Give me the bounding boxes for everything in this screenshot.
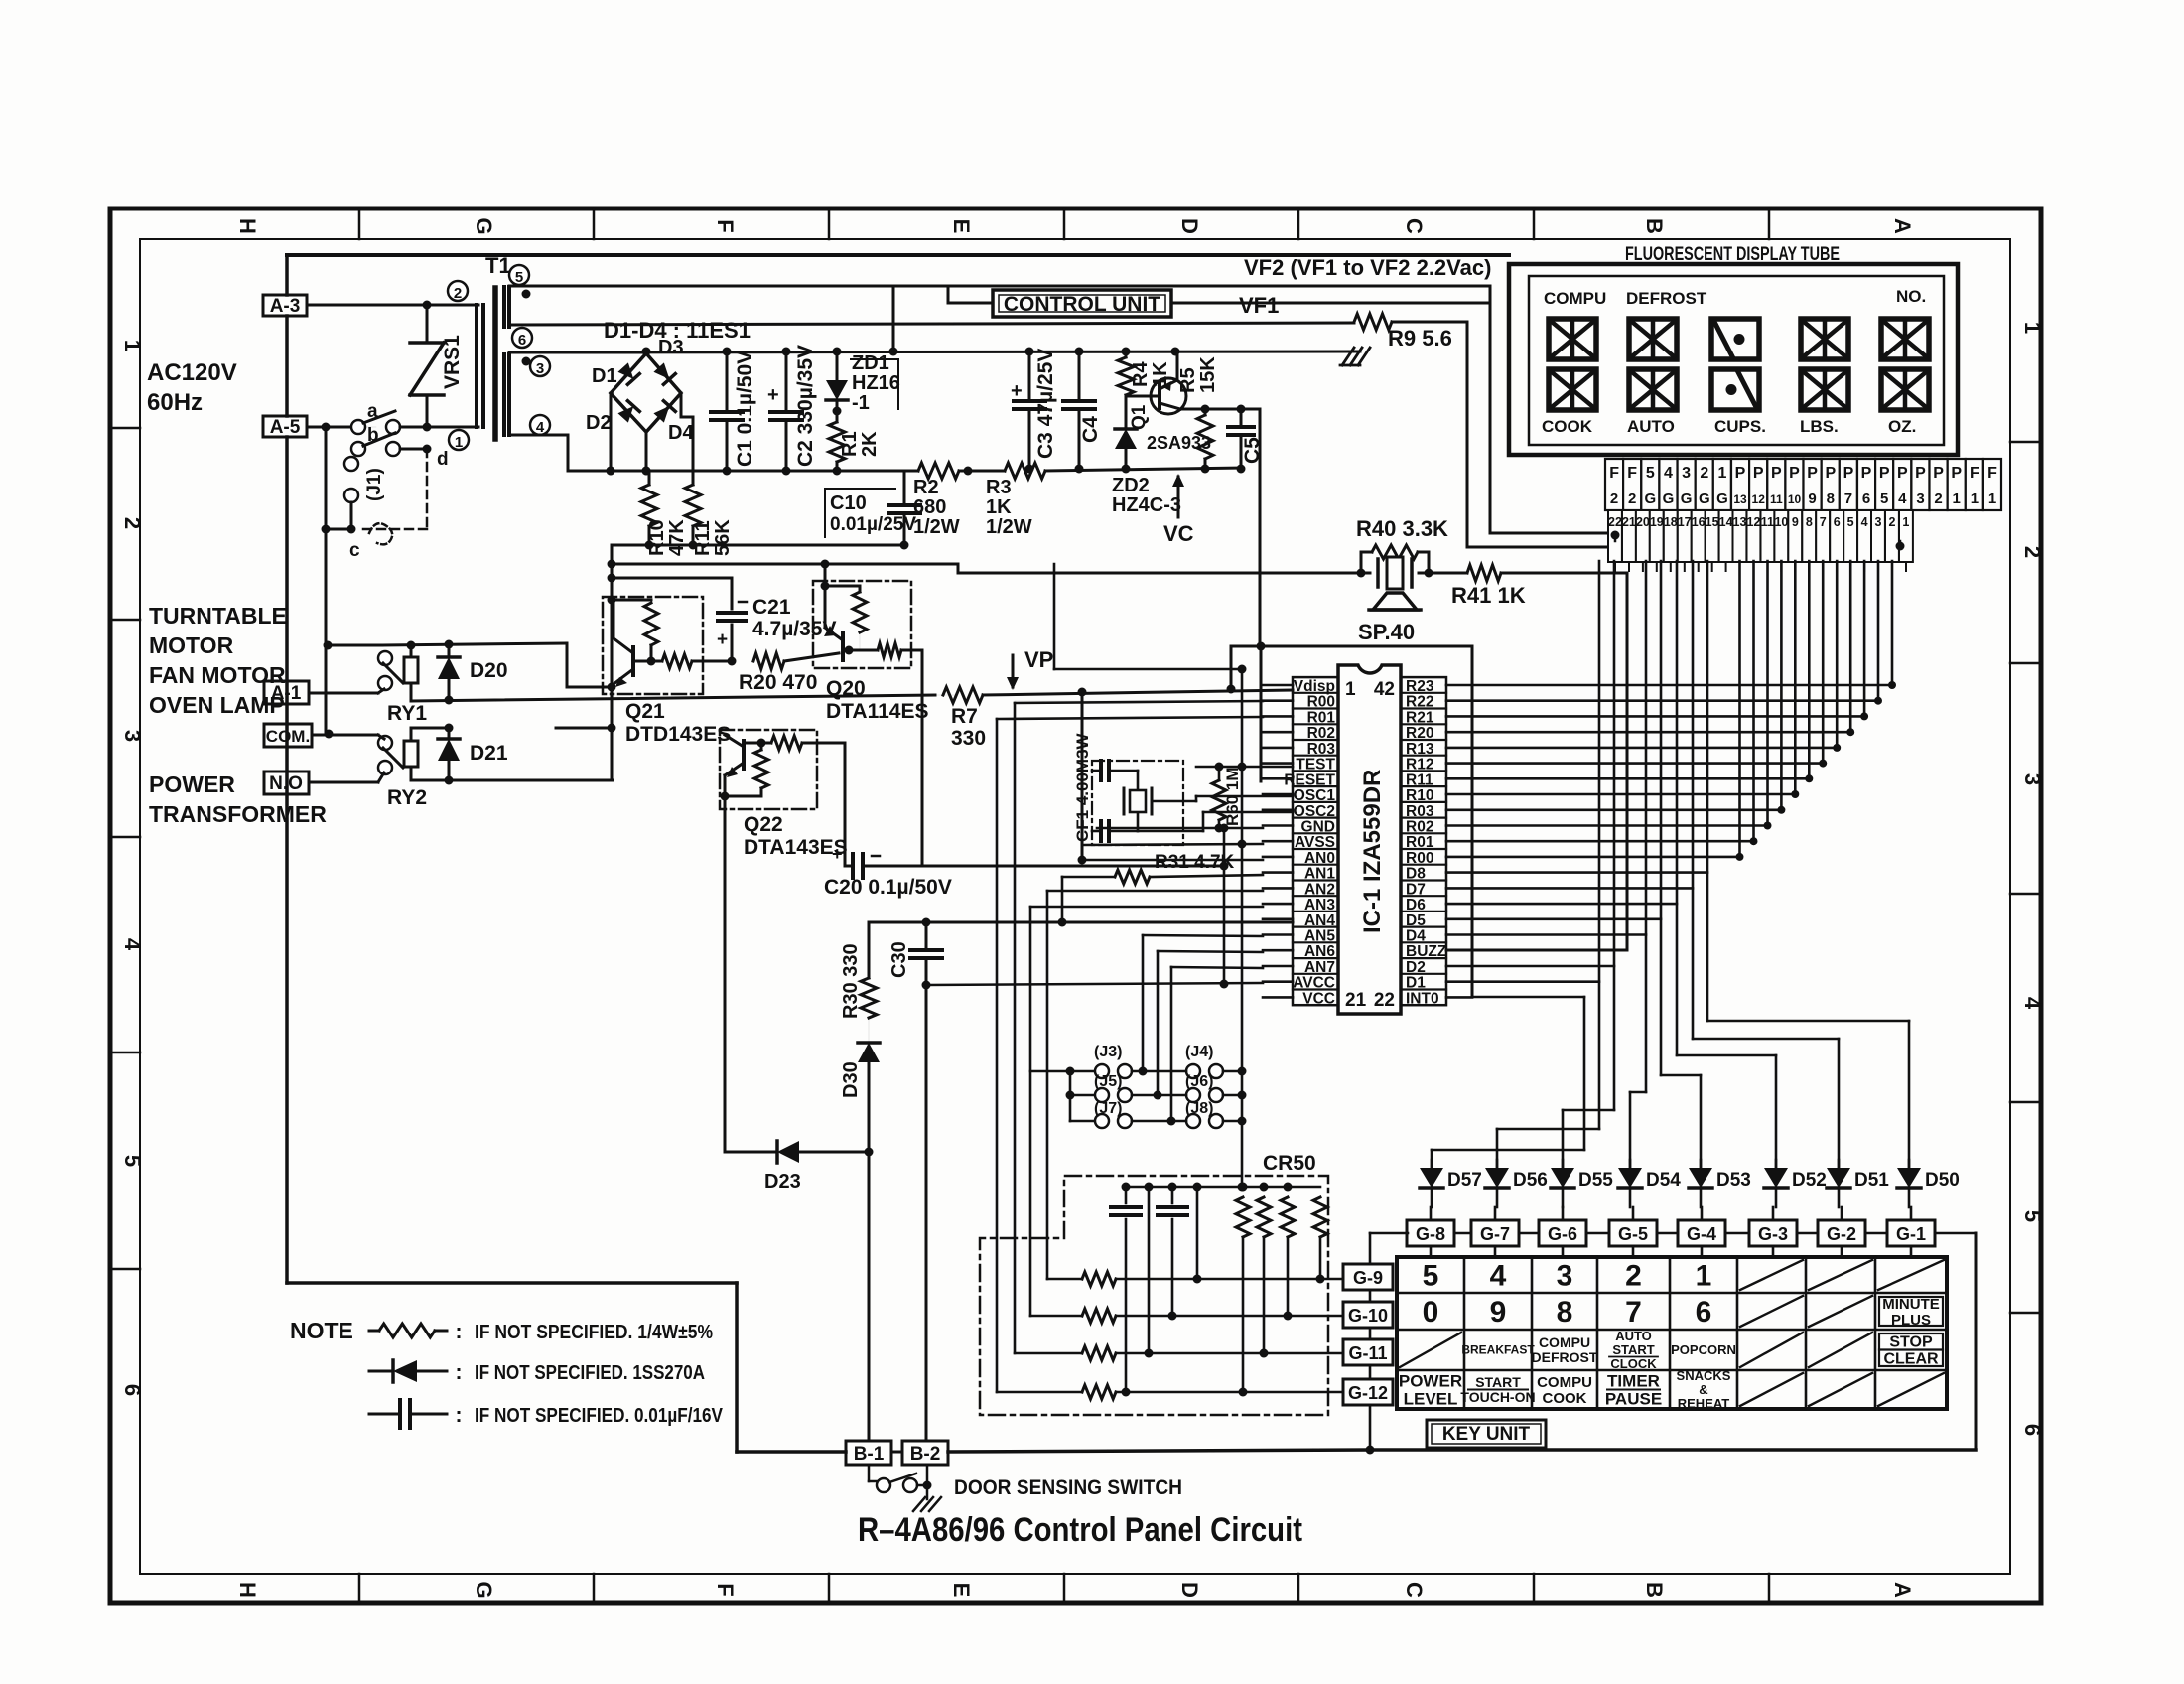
svg-text:6: 6 xyxy=(1834,515,1841,529)
wire AN3 row to G-10 riser xyxy=(1030,906,1263,909)
svg-text:P: P xyxy=(1807,465,1818,482)
svg-text:B: B xyxy=(1642,1582,1667,1598)
svg-text:Q1: Q1 xyxy=(1129,404,1150,430)
key MINUTE PLUS xyxy=(1879,1297,1943,1326)
resistor R20 xyxy=(753,653,784,669)
terminal circle 6 xyxy=(512,328,532,348)
svg-text:DEFROST: DEFROST xyxy=(1626,289,1707,308)
svg-text:56K: 56K xyxy=(712,519,734,556)
svg-text:COOK: COOK xyxy=(1542,417,1593,436)
svg-text:A-3: A-3 xyxy=(270,296,301,317)
svg-text:STOP: STOP xyxy=(1889,1334,1933,1351)
svg-text:R7: R7 xyxy=(951,705,978,728)
wire bridge bottom vertex down xyxy=(645,432,648,471)
jumper J4 xyxy=(1186,1064,1200,1078)
svg-text:c: c xyxy=(349,540,360,561)
wire bridge right vertex to R11 xyxy=(680,393,683,417)
svg-text:TURNTABLE: TURNTABLE xyxy=(149,603,287,629)
wire Q21 collector feed bus xyxy=(612,563,958,566)
svg-text:MOTOR: MOTOR xyxy=(149,632,234,658)
resistor R41 xyxy=(1429,572,1467,575)
resistor CR50 r4 xyxy=(1313,1197,1327,1237)
svg-text:P: P xyxy=(1843,465,1854,482)
border zone tick marks left xyxy=(110,427,140,430)
svg-text:R20 470: R20 470 xyxy=(739,671,817,694)
svg-text:C3 47µ/25V: C3 47µ/25V xyxy=(1034,349,1057,459)
svg-text:R9 5.6: R9 5.6 xyxy=(1388,326,1452,351)
IC-1 right pin boxes xyxy=(1401,677,1446,1005)
svg-text:PAUSE: PAUSE xyxy=(1605,1390,1662,1409)
node box G-5 xyxy=(1609,1220,1657,1246)
wire J right column xyxy=(1223,1070,1242,1073)
transformer T1 secondary winding 3-4 xyxy=(502,354,506,435)
svg-text:8: 8 xyxy=(1557,1296,1573,1329)
resistor Q22 internal xyxy=(754,750,768,788)
svg-text:13: 13 xyxy=(1733,492,1747,506)
svg-text:18: 18 xyxy=(1664,515,1678,529)
svg-text:VC: VC xyxy=(1163,521,1194,546)
svg-text:G: G xyxy=(1663,491,1675,507)
svg-text:G: G xyxy=(1644,491,1656,507)
svg-text:3: 3 xyxy=(120,730,145,742)
terminal box COM xyxy=(264,724,312,747)
svg-text:T1: T1 xyxy=(485,253,511,278)
svg-text:P: P xyxy=(1753,465,1764,482)
diode D56 xyxy=(1496,1160,1499,1168)
resistor R5 xyxy=(1197,415,1213,459)
wire control unit top boundary xyxy=(287,253,1509,257)
wire switch a to VRS1 node xyxy=(400,426,478,429)
wire winding3 top to bus xyxy=(509,351,646,354)
key blank diag r2c7 xyxy=(1809,1296,1872,1327)
svg-text:8: 8 xyxy=(1827,491,1835,507)
ground symbol top bus right end xyxy=(1342,348,1354,365)
svg-text:HZ4C-3: HZ4C-3 xyxy=(1112,494,1181,516)
op-amp IC-1 IZA559DR body xyxy=(1338,665,1401,1014)
svg-text:1: 1 xyxy=(455,434,463,451)
svg-text:COMPU: COMPU xyxy=(1537,1374,1592,1391)
svg-text:SNACKS: SNACKS xyxy=(1677,1368,1731,1383)
svg-text:C30: C30 xyxy=(888,941,910,978)
wire RESET riser xyxy=(1260,646,1263,781)
resistor Q20 emitter xyxy=(878,643,901,657)
key blank diag r1c8 xyxy=(1878,1260,1944,1290)
svg-text:D20: D20 xyxy=(470,659,508,682)
svg-text:22: 22 xyxy=(1608,515,1622,529)
wire A-1 to RY1 contact xyxy=(309,692,378,695)
svg-text:22: 22 xyxy=(1374,990,1395,1011)
svg-text:Q20: Q20 xyxy=(826,677,866,700)
svg-text:D51: D51 xyxy=(1854,1170,1889,1191)
wire RY1 top rail xyxy=(382,643,567,645)
display connector pin row lower cells xyxy=(1608,510,1622,562)
svg-text:10: 10 xyxy=(1788,492,1802,506)
jumper J8 xyxy=(1186,1114,1200,1128)
wire winding6 bottom / VF1 line xyxy=(509,323,1354,325)
capacitor CF1 lower xyxy=(1092,830,1099,833)
wire R7 to Vdisp row xyxy=(983,690,1293,695)
speaker cone SP.40 xyxy=(1373,593,1417,610)
svg-text:4: 4 xyxy=(1664,465,1673,482)
svg-text:6: 6 xyxy=(120,1384,145,1396)
svg-text:12: 12 xyxy=(1747,515,1761,529)
diode D1 on bridge arm xyxy=(617,362,640,385)
wire buzzer to IC BUZZ pin xyxy=(1626,573,1629,950)
wire riser x1233 xyxy=(1223,828,1226,984)
svg-text:(J6): (J6) xyxy=(1185,1073,1213,1090)
svg-text:2: 2 xyxy=(2020,546,2045,558)
svg-text:NO.: NO. xyxy=(1896,287,1926,306)
svg-text:Q21: Q21 xyxy=(625,700,665,723)
svg-text:5: 5 xyxy=(120,1155,145,1167)
diode D55 xyxy=(1562,1160,1565,1168)
svg-text:6: 6 xyxy=(2020,1424,2045,1436)
wire CR50 col3 xyxy=(1148,1187,1151,1353)
svg-text:AC120V: AC120V xyxy=(147,359,237,386)
svg-text:(J3): (J3) xyxy=(1094,1044,1122,1060)
svg-text:G: G xyxy=(1716,491,1728,507)
key START TOUCH-ON xyxy=(1468,1389,1528,1391)
node box G-8 xyxy=(1407,1220,1454,1246)
svg-text:G-10: G-10 xyxy=(1348,1306,1388,1326)
box KEY UNIT xyxy=(1427,1420,1546,1448)
wire main top bus + xyxy=(509,351,1360,352)
J1 dashed squiggle xyxy=(369,523,392,544)
svg-text:VP: VP xyxy=(1024,647,1053,672)
svg-text:0: 0 xyxy=(1423,1296,1439,1329)
svg-text:1: 1 xyxy=(1345,679,1356,700)
svg-text:G: G xyxy=(472,217,496,234)
svg-text:1: 1 xyxy=(120,340,145,351)
svg-text:CUPS.: CUPS. xyxy=(1714,417,1766,436)
svg-text:(J1): (J1) xyxy=(364,468,385,501)
svg-text:DTA114ES: DTA114ES xyxy=(826,700,929,723)
note diode symbol xyxy=(369,1370,393,1373)
wire R31 corner to AN4 xyxy=(1061,877,1064,922)
transistor Q21 outline box xyxy=(603,597,703,694)
svg-text:Q22: Q22 xyxy=(744,813,783,836)
wire switch b to node d xyxy=(400,448,427,451)
ceramic resonator CF1 box xyxy=(1092,761,1183,845)
wire VF1 to display pins xyxy=(1392,321,1467,324)
svg-text:D4: D4 xyxy=(668,422,694,444)
svg-text:1: 1 xyxy=(1717,465,1726,482)
capacitor C4 xyxy=(1078,351,1081,401)
wire staircase D-row droppers to key diodes xyxy=(1472,871,1707,874)
svg-text:P: P xyxy=(1789,465,1800,482)
wire jumper left feed xyxy=(1030,1070,1094,1073)
capacitor C21 xyxy=(612,577,732,580)
svg-text:P: P xyxy=(1951,465,1962,482)
wire OSC1 row xyxy=(1152,800,1196,803)
svg-text:6: 6 xyxy=(518,332,526,349)
resistor R7 xyxy=(935,694,955,696)
IC-1 left pin stubs xyxy=(1263,684,1293,687)
svg-text:P: P xyxy=(1879,465,1890,482)
wire IC loop top xyxy=(1231,645,1472,648)
svg-text:G-12: G-12 xyxy=(1348,1383,1388,1403)
svg-text:1: 1 xyxy=(2020,322,2045,334)
key TIMER PAUSE xyxy=(1607,1389,1660,1391)
svg-text:G-9: G-9 xyxy=(1353,1268,1383,1288)
svg-text:MINUTE: MINUTE xyxy=(1882,1296,1940,1313)
display digit 3 with colon dots xyxy=(1711,319,1759,359)
svg-text:20: 20 xyxy=(1636,515,1650,529)
diode D21 xyxy=(448,728,451,737)
wire G chain verticals xyxy=(1369,1233,1372,1264)
display connector pin row upper cells xyxy=(1605,459,1623,510)
resistor G-11 row xyxy=(1015,1352,1082,1355)
transistor Q1 2SA933 xyxy=(1151,378,1186,414)
svg-text:12: 12 xyxy=(1752,492,1766,506)
svg-text:2: 2 xyxy=(120,517,145,529)
svg-text:2: 2 xyxy=(1628,491,1636,507)
terminal box A-3 xyxy=(263,295,307,316)
wire A-3 to T1 primary xyxy=(307,304,478,307)
resistor R10 xyxy=(648,471,651,485)
svg-text:8: 8 xyxy=(1806,515,1813,529)
svg-text:POWER: POWER xyxy=(149,772,235,797)
svg-text:D57: D57 xyxy=(1447,1170,1482,1191)
wire RY2 bottom rail xyxy=(411,779,613,782)
svg-text:5: 5 xyxy=(1880,491,1888,507)
svg-text:R–4A86/96 Control Panel Circui: R–4A86/96 Control Panel Circuit xyxy=(858,1511,1302,1549)
svg-text:F: F xyxy=(1627,465,1637,482)
svg-text:VF2 (VF1 to VF2 2.2Vac): VF2 (VF1 to VF2 2.2Vac) xyxy=(1244,255,1491,280)
svg-text:IF NOT SPECIFIED. 1/4W±5%: IF NOT SPECIFIED. 1/4W±5% xyxy=(475,1322,713,1343)
svg-text:D: D xyxy=(1177,218,1202,234)
svg-text:POPCORN: POPCORN xyxy=(1671,1342,1736,1357)
diode D30 xyxy=(868,1018,870,1042)
wire AVCC row xyxy=(926,983,1263,985)
display tube inner box xyxy=(1529,276,1944,445)
svg-text:D30: D30 xyxy=(840,1061,862,1098)
wire riser x1251 xyxy=(1241,669,1244,1187)
svg-text:F: F xyxy=(1970,465,1979,482)
svg-text::: : xyxy=(456,1404,463,1427)
crystal CF1 xyxy=(1130,790,1146,812)
svg-text:60Hz: 60Hz xyxy=(147,389,203,416)
svg-text:(J4): (J4) xyxy=(1185,1044,1213,1060)
note capacitor symbol xyxy=(369,1413,397,1416)
svg-text:R30 330: R30 330 xyxy=(840,943,862,1019)
wire CR50 col4 xyxy=(1196,1187,1199,1279)
key blank diag r4c8 xyxy=(1878,1373,1944,1406)
IC-1 right pin stubs xyxy=(1446,684,1472,687)
svg-text:OZ.: OZ. xyxy=(1888,417,1916,436)
key blank diag r4c7 xyxy=(1809,1373,1872,1406)
svg-text:P: P xyxy=(1861,465,1872,482)
zener diode ZD1 xyxy=(836,351,839,380)
wire lower bus right part xyxy=(959,470,1005,473)
wire B1-B2 link xyxy=(891,1451,902,1454)
svg-text:d: d xyxy=(437,449,449,470)
wire AN7 row xyxy=(1171,967,1263,968)
capacitor C10 xyxy=(903,471,906,504)
svg-text:(J8): (J8) xyxy=(1185,1100,1213,1117)
svg-text:+: + xyxy=(832,844,843,864)
door sensing switch xyxy=(868,1465,871,1481)
svg-text:R3: R3 xyxy=(986,477,1012,498)
svg-text:ZD1: ZD1 xyxy=(852,352,889,374)
svg-text:VRS1: VRS1 xyxy=(441,335,464,389)
wire Vdisp riser xyxy=(1230,646,1233,690)
wire COM to relay RY2 xyxy=(312,734,378,737)
svg-text:2: 2 xyxy=(454,285,462,302)
svg-text:VF1: VF1 xyxy=(1239,293,1279,318)
svg-text:C: C xyxy=(1402,1582,1427,1598)
diode D57 xyxy=(1431,1160,1433,1168)
svg-text:COOK: COOK xyxy=(1543,1390,1587,1407)
svg-text:B-2: B-2 xyxy=(910,1444,941,1465)
wire R00 row to G-11 riser xyxy=(1015,700,1293,702)
svg-text:+: + xyxy=(1011,380,1023,402)
bridge rectifier D1-D4 diamond xyxy=(611,353,681,432)
transistor Q21 xyxy=(631,647,635,675)
wire AN4 row xyxy=(869,921,1293,924)
note resistor symbol xyxy=(369,1330,379,1333)
svg-text:R5: R5 xyxy=(1177,367,1199,393)
capacitor C1 xyxy=(726,351,729,412)
svg-text:D54: D54 xyxy=(1646,1170,1681,1191)
svg-text:P: P xyxy=(1825,465,1836,482)
svg-text:(J5): (J5) xyxy=(1094,1073,1122,1090)
node box G-3 xyxy=(1749,1220,1797,1246)
wire J7 to AN7 xyxy=(1132,1120,1186,1123)
svg-text:6: 6 xyxy=(1696,1296,1712,1329)
svg-text:CLOCK: CLOCK xyxy=(1610,1356,1657,1371)
relay RY2 contact xyxy=(378,736,392,750)
svg-text:4: 4 xyxy=(120,938,145,951)
svg-text:CLEAR: CLEAR xyxy=(1883,1351,1939,1368)
wire chain R30 D30 to B-1 xyxy=(868,922,871,978)
svg-text:LEVEL: LEVEL xyxy=(1404,1390,1458,1409)
wire lower bus xyxy=(568,470,918,473)
svg-text:5: 5 xyxy=(1423,1260,1439,1293)
diode D20 xyxy=(448,644,451,655)
svg-text:P: P xyxy=(1897,465,1908,482)
diode D53 xyxy=(1700,1160,1703,1168)
callout box ZD1 xyxy=(851,359,898,409)
svg-text:G-8: G-8 xyxy=(1416,1224,1445,1244)
wire relay RY1 feed xyxy=(326,644,382,647)
capacitor C30 xyxy=(910,948,942,952)
svg-text:1: 1 xyxy=(1696,1260,1712,1293)
transistor Q20 outline box xyxy=(813,581,911,668)
svg-text:1: 1 xyxy=(1988,491,1996,507)
svg-text:330: 330 xyxy=(951,727,986,750)
svg-text:10: 10 xyxy=(1774,515,1788,529)
wire Q22 base corner down to C20 xyxy=(844,743,847,866)
relay RY1 contact xyxy=(378,651,392,665)
wire A-5 bus lower stub xyxy=(325,427,327,529)
node box G-12 xyxy=(1343,1379,1393,1405)
wire INT0 to diode D57 xyxy=(1472,996,1584,999)
svg-text:42: 42 xyxy=(1374,679,1395,700)
svg-text:CR50: CR50 xyxy=(1263,1152,1316,1175)
svg-text:4: 4 xyxy=(2020,997,2045,1010)
resistor R11 xyxy=(685,485,701,526)
relay RY2 coil xyxy=(410,728,413,741)
ceramic resonator SP40 xyxy=(1361,572,1370,575)
J1 connector pins lower xyxy=(344,457,358,471)
svg-text:F: F xyxy=(713,219,738,232)
transformer T1 core xyxy=(492,288,498,439)
svg-text::: : xyxy=(456,1361,463,1384)
svg-text:2: 2 xyxy=(1934,491,1942,507)
svg-text:3: 3 xyxy=(1875,515,1882,529)
svg-text:H: H xyxy=(235,218,260,234)
wire display pin22 VF2 junction xyxy=(1614,533,1617,541)
wire G box links xyxy=(1454,1232,1471,1235)
svg-text:P: P xyxy=(1915,465,1926,482)
resistor CR50 r2 xyxy=(1257,1197,1271,1237)
resistor G-12 row xyxy=(997,1391,1082,1394)
svg-text:4: 4 xyxy=(1490,1260,1507,1293)
svg-text:+: + xyxy=(717,630,728,650)
svg-text:19: 19 xyxy=(1650,515,1664,529)
svg-text:4: 4 xyxy=(1898,491,1907,507)
svg-text:b: b xyxy=(367,425,379,446)
wire RY1 rail drop to Q21 emitter bus xyxy=(566,643,569,687)
svg-text:1: 1 xyxy=(1953,491,1961,507)
resistor R1 xyxy=(829,422,845,462)
node box G-10 xyxy=(1343,1302,1393,1328)
transformer T1 secondary winding 5-6 xyxy=(502,287,506,327)
svg-text:COMPU: COMPU xyxy=(1544,289,1606,308)
wire bottom boundary xyxy=(287,1281,737,1285)
svg-text:11: 11 xyxy=(1770,492,1783,506)
wire RY1 bottom rail to R7 node xyxy=(411,695,935,701)
capacitor CF1 upper xyxy=(1092,770,1099,772)
svg-text:H: H xyxy=(235,1582,260,1598)
relay RY1 coil xyxy=(410,645,413,657)
svg-text:DEFROST: DEFROST xyxy=(1532,1349,1598,1365)
wire rail down to Q21 rail xyxy=(611,545,614,564)
key unit matrix outer xyxy=(1397,1257,1947,1409)
svg-text:21: 21 xyxy=(1622,515,1636,529)
svg-text:R40 3.3K: R40 3.3K xyxy=(1356,516,1448,541)
svg-text:C1 0.1µ/50V: C1 0.1µ/50V xyxy=(734,351,756,467)
display digit 2 xyxy=(1629,319,1677,359)
switch J1 contact b xyxy=(351,442,365,456)
svg-text:9: 9 xyxy=(1490,1296,1507,1329)
svg-text:TOUCH-ON: TOUCH-ON xyxy=(1460,1389,1535,1405)
svg-text:LBS.: LBS. xyxy=(1800,417,1839,436)
wire winding4 bottom xyxy=(509,434,568,437)
diode D52 xyxy=(1775,1160,1778,1168)
svg-text:5: 5 xyxy=(515,269,523,286)
key blank diag r2c6 xyxy=(1740,1296,1803,1327)
IC-1 left pin boxes xyxy=(1293,677,1338,1005)
border frame inner xyxy=(140,239,2010,1574)
diode D4 on bridge arm xyxy=(653,401,676,424)
svg-text:D52: D52 xyxy=(1792,1170,1827,1191)
wire R01 row to G-12 riser xyxy=(997,717,1263,719)
terminal circle 5 xyxy=(509,265,529,285)
key blank diag r3c7 xyxy=(1809,1333,1872,1367)
svg-text:2: 2 xyxy=(1700,465,1708,482)
arrow VC xyxy=(1177,477,1180,517)
key blank diag r3c6 xyxy=(1740,1333,1803,1367)
svg-text:+: + xyxy=(767,384,779,406)
svg-text:47K: 47K xyxy=(666,519,688,556)
diode D50 xyxy=(1908,1160,1911,1168)
resistor R31 on AN1 row xyxy=(1062,876,1115,879)
svg-text:P: P xyxy=(1933,465,1944,482)
svg-text:C5: C5 xyxy=(1241,437,1264,464)
svg-text:P: P xyxy=(1735,465,1746,482)
